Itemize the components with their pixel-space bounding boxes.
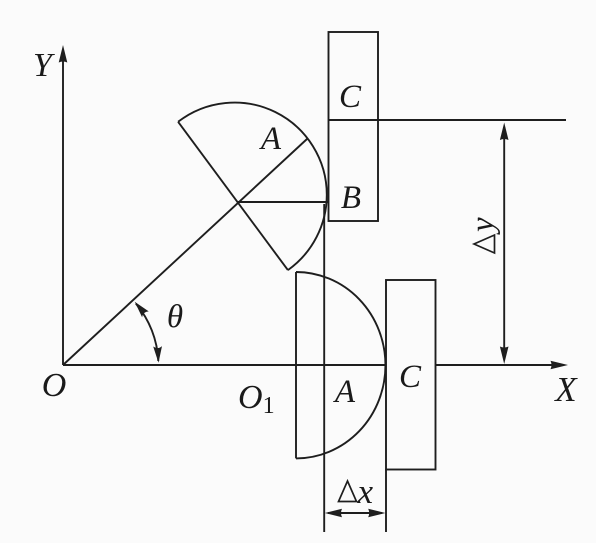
lower half-disc A flat edge <box>295 272 297 458</box>
svg-text:C: C <box>399 359 422 395</box>
X axis <box>63 364 386 366</box>
delta-x left arrowhead <box>325 509 342 518</box>
top reference line <box>329 119 567 121</box>
svg-text:O: O <box>42 367 67 404</box>
diagonal radius line at angle theta <box>63 139 307 365</box>
delta-y top arrowhead <box>500 123 509 141</box>
lower slider rectangle C <box>386 280 436 470</box>
svg-text:B: B <box>341 180 361 216</box>
svg-text:x: x <box>357 472 374 511</box>
X axis right segment <box>436 364 554 366</box>
delta-x dimension line <box>328 512 382 514</box>
svg-text:θ: θ <box>167 299 183 335</box>
svg-text:A: A <box>259 121 282 157</box>
extension line through upper tangency (left delta-x line) <box>323 204 325 532</box>
delta-y bottom arrowhead <box>500 347 509 365</box>
lower half-disc A arc <box>296 272 385 458</box>
horizontal radius line to contact point B <box>238 201 329 203</box>
theta arc arrowhead upper <box>135 302 149 317</box>
svg-text:Y: Y <box>33 47 55 84</box>
svg-text:C: C <box>339 79 362 115</box>
X axis arrowhead <box>551 361 569 370</box>
svg-text:A: A <box>333 374 356 410</box>
delta-x right arrowhead <box>368 509 385 518</box>
upper half-disc A arc <box>178 103 327 271</box>
svg-text:y: y <box>465 217 501 235</box>
svg-text:X: X <box>553 370 578 409</box>
Y axis arrowhead <box>59 45 68 63</box>
theta arc arrowhead lower <box>153 346 162 363</box>
theta angle arc <box>136 304 158 361</box>
label delta-x <box>339 472 374 511</box>
svg-text:O1: O1 <box>238 379 275 419</box>
right delta-x extension line <box>385 470 387 533</box>
Y axis <box>62 60 64 365</box>
label delta-y (rotated) <box>465 217 501 253</box>
upper half-disc A flat edge <box>178 122 288 270</box>
upper slider rectangle (C/B block) <box>329 32 379 221</box>
delta-y dimension line <box>503 127 505 358</box>
